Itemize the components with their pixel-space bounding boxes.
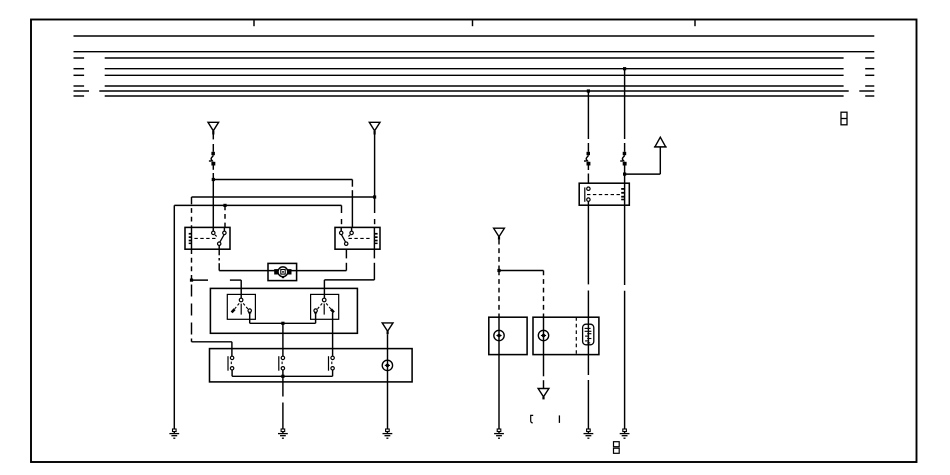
wire R3 switch through lighter to ground G5 xyxy=(587,205,589,429)
node J2 xyxy=(373,195,376,198)
relay R1 linkage xyxy=(194,237,216,239)
switch SW1 xyxy=(228,356,234,371)
ground G6 xyxy=(620,429,630,438)
wire R1 coil to node J5 xyxy=(191,249,193,280)
relay R2 contacts xyxy=(340,227,354,245)
wire through L4 to ground G4 xyxy=(498,317,500,429)
wire from A1 to fuse F1 xyxy=(212,135,214,152)
fuse F1 xyxy=(209,152,215,166)
wire ground line xyxy=(174,205,341,428)
lighter element detail xyxy=(585,328,592,343)
capsule lighter element xyxy=(583,324,594,345)
node J3 xyxy=(223,204,226,207)
fuse F3 xyxy=(620,152,626,166)
ground G5 xyxy=(584,429,594,438)
wire bus line 6 xyxy=(74,85,875,87)
lamp L5 xyxy=(538,330,548,340)
node J10 on bus 4 xyxy=(623,67,626,70)
node J7 xyxy=(281,322,284,325)
wire A3 through lamp L3 to ground G3 xyxy=(387,334,389,429)
wire J3 down to relay R1 xyxy=(224,205,226,231)
label bracket xyxy=(531,415,534,423)
node J6 xyxy=(497,269,500,272)
wire through motor xyxy=(268,270,297,272)
ground G2 xyxy=(278,429,288,438)
park switch 2 box xyxy=(311,294,339,319)
relay R2 box xyxy=(335,227,380,249)
wire dashed down to R1 coil xyxy=(191,200,193,228)
wiper switch box xyxy=(210,349,413,382)
fuse F2 xyxy=(584,152,590,166)
switch SW2 xyxy=(279,356,285,371)
label mark xyxy=(558,415,560,423)
wire J2 down to relay R2 coil xyxy=(374,197,376,224)
lamp L3 xyxy=(382,360,392,370)
connector symbol A4 xyxy=(494,228,505,240)
motor M1 box xyxy=(268,263,297,280)
node J5 xyxy=(190,279,193,282)
wire A4 to node J6 xyxy=(498,240,500,271)
wire J11 to connector A6 xyxy=(625,147,661,174)
wire R3 coil to ground G6 xyxy=(624,205,626,429)
connector code mark bottom xyxy=(614,442,620,454)
wire fuse F1 to node J1 xyxy=(212,166,214,180)
wire F3 to relay R3 coil xyxy=(624,166,626,184)
wire A2 down to node J2 xyxy=(374,135,376,198)
wire through L5 xyxy=(543,317,545,354)
node J9 on bus 7 xyxy=(587,89,590,92)
wire J9 to fuse F2 xyxy=(587,91,589,152)
partition dashed xyxy=(575,317,577,354)
relay R3 coil xyxy=(621,183,625,205)
wire L5 to connector A5 xyxy=(543,355,545,389)
connector symbol A2 xyxy=(369,122,380,134)
relay R2 linkage xyxy=(349,237,371,239)
connector code mark top right xyxy=(841,112,847,125)
connector symbol A5 xyxy=(538,389,549,400)
wire bus line 2 xyxy=(74,51,875,53)
wire R1 switch to motor xyxy=(219,245,268,270)
wire J2 to relay R1 coil xyxy=(192,197,375,200)
relay R3 switch xyxy=(585,183,590,205)
wire park switch 2 to wiper switch 3 xyxy=(332,313,334,357)
relay R3 linkage xyxy=(587,194,621,196)
wire J1 to right relay switch xyxy=(213,180,352,228)
wire J7 down to wiper switch 2 xyxy=(282,323,284,356)
wire J5 to wiper park switch xyxy=(192,280,242,298)
wire switch commons xyxy=(232,370,333,376)
node J1 xyxy=(212,178,215,181)
wire park switch link xyxy=(250,313,316,324)
switch SW3 xyxy=(329,356,335,371)
wire J1 down to relay R1 xyxy=(212,180,214,232)
wire J5 down to switch box xyxy=(192,285,232,357)
ground G3 xyxy=(383,429,393,438)
ground G4 xyxy=(494,429,504,438)
park switch 2 xyxy=(314,298,334,314)
wire J10 to fuse F3 xyxy=(624,69,626,152)
wire bus line 5 xyxy=(74,74,875,76)
park switch 1 xyxy=(232,298,252,314)
park switch 1 box xyxy=(227,294,255,319)
wire J6 to lamp L5 xyxy=(499,271,544,318)
ground G1 xyxy=(169,429,179,438)
relay R3 box xyxy=(579,183,629,205)
wire R2 coil to park switch 2 xyxy=(324,249,374,298)
motor M1 xyxy=(274,267,291,278)
wire bus line 3 xyxy=(74,57,875,59)
relay R1 coil xyxy=(189,227,192,249)
wiper switch unit box xyxy=(210,288,357,333)
relay R2 coil xyxy=(374,227,377,249)
relay R1 box xyxy=(185,227,230,249)
lamp L4 xyxy=(494,330,504,340)
wire bus line 1 xyxy=(74,35,875,37)
wire bus line 4 xyxy=(74,68,875,70)
wire bus line 7 xyxy=(74,90,875,92)
wire bus line 8 xyxy=(74,95,875,97)
connector symbol A3 xyxy=(382,323,393,334)
illumination lamp box xyxy=(489,317,527,354)
wire motor to relay R2 switch xyxy=(297,249,347,270)
connector symbol A1 xyxy=(208,122,219,134)
wire J6 down to lamp L4 xyxy=(498,271,500,318)
wire J8 to ground G2 xyxy=(282,376,284,429)
node J8 xyxy=(281,375,284,378)
cigarette lighter box xyxy=(533,317,599,354)
relay R1 contacts xyxy=(212,227,226,245)
wire F2 to relay R3 xyxy=(587,166,589,184)
connector symbol A6 xyxy=(654,137,667,147)
node J11 xyxy=(623,173,626,176)
